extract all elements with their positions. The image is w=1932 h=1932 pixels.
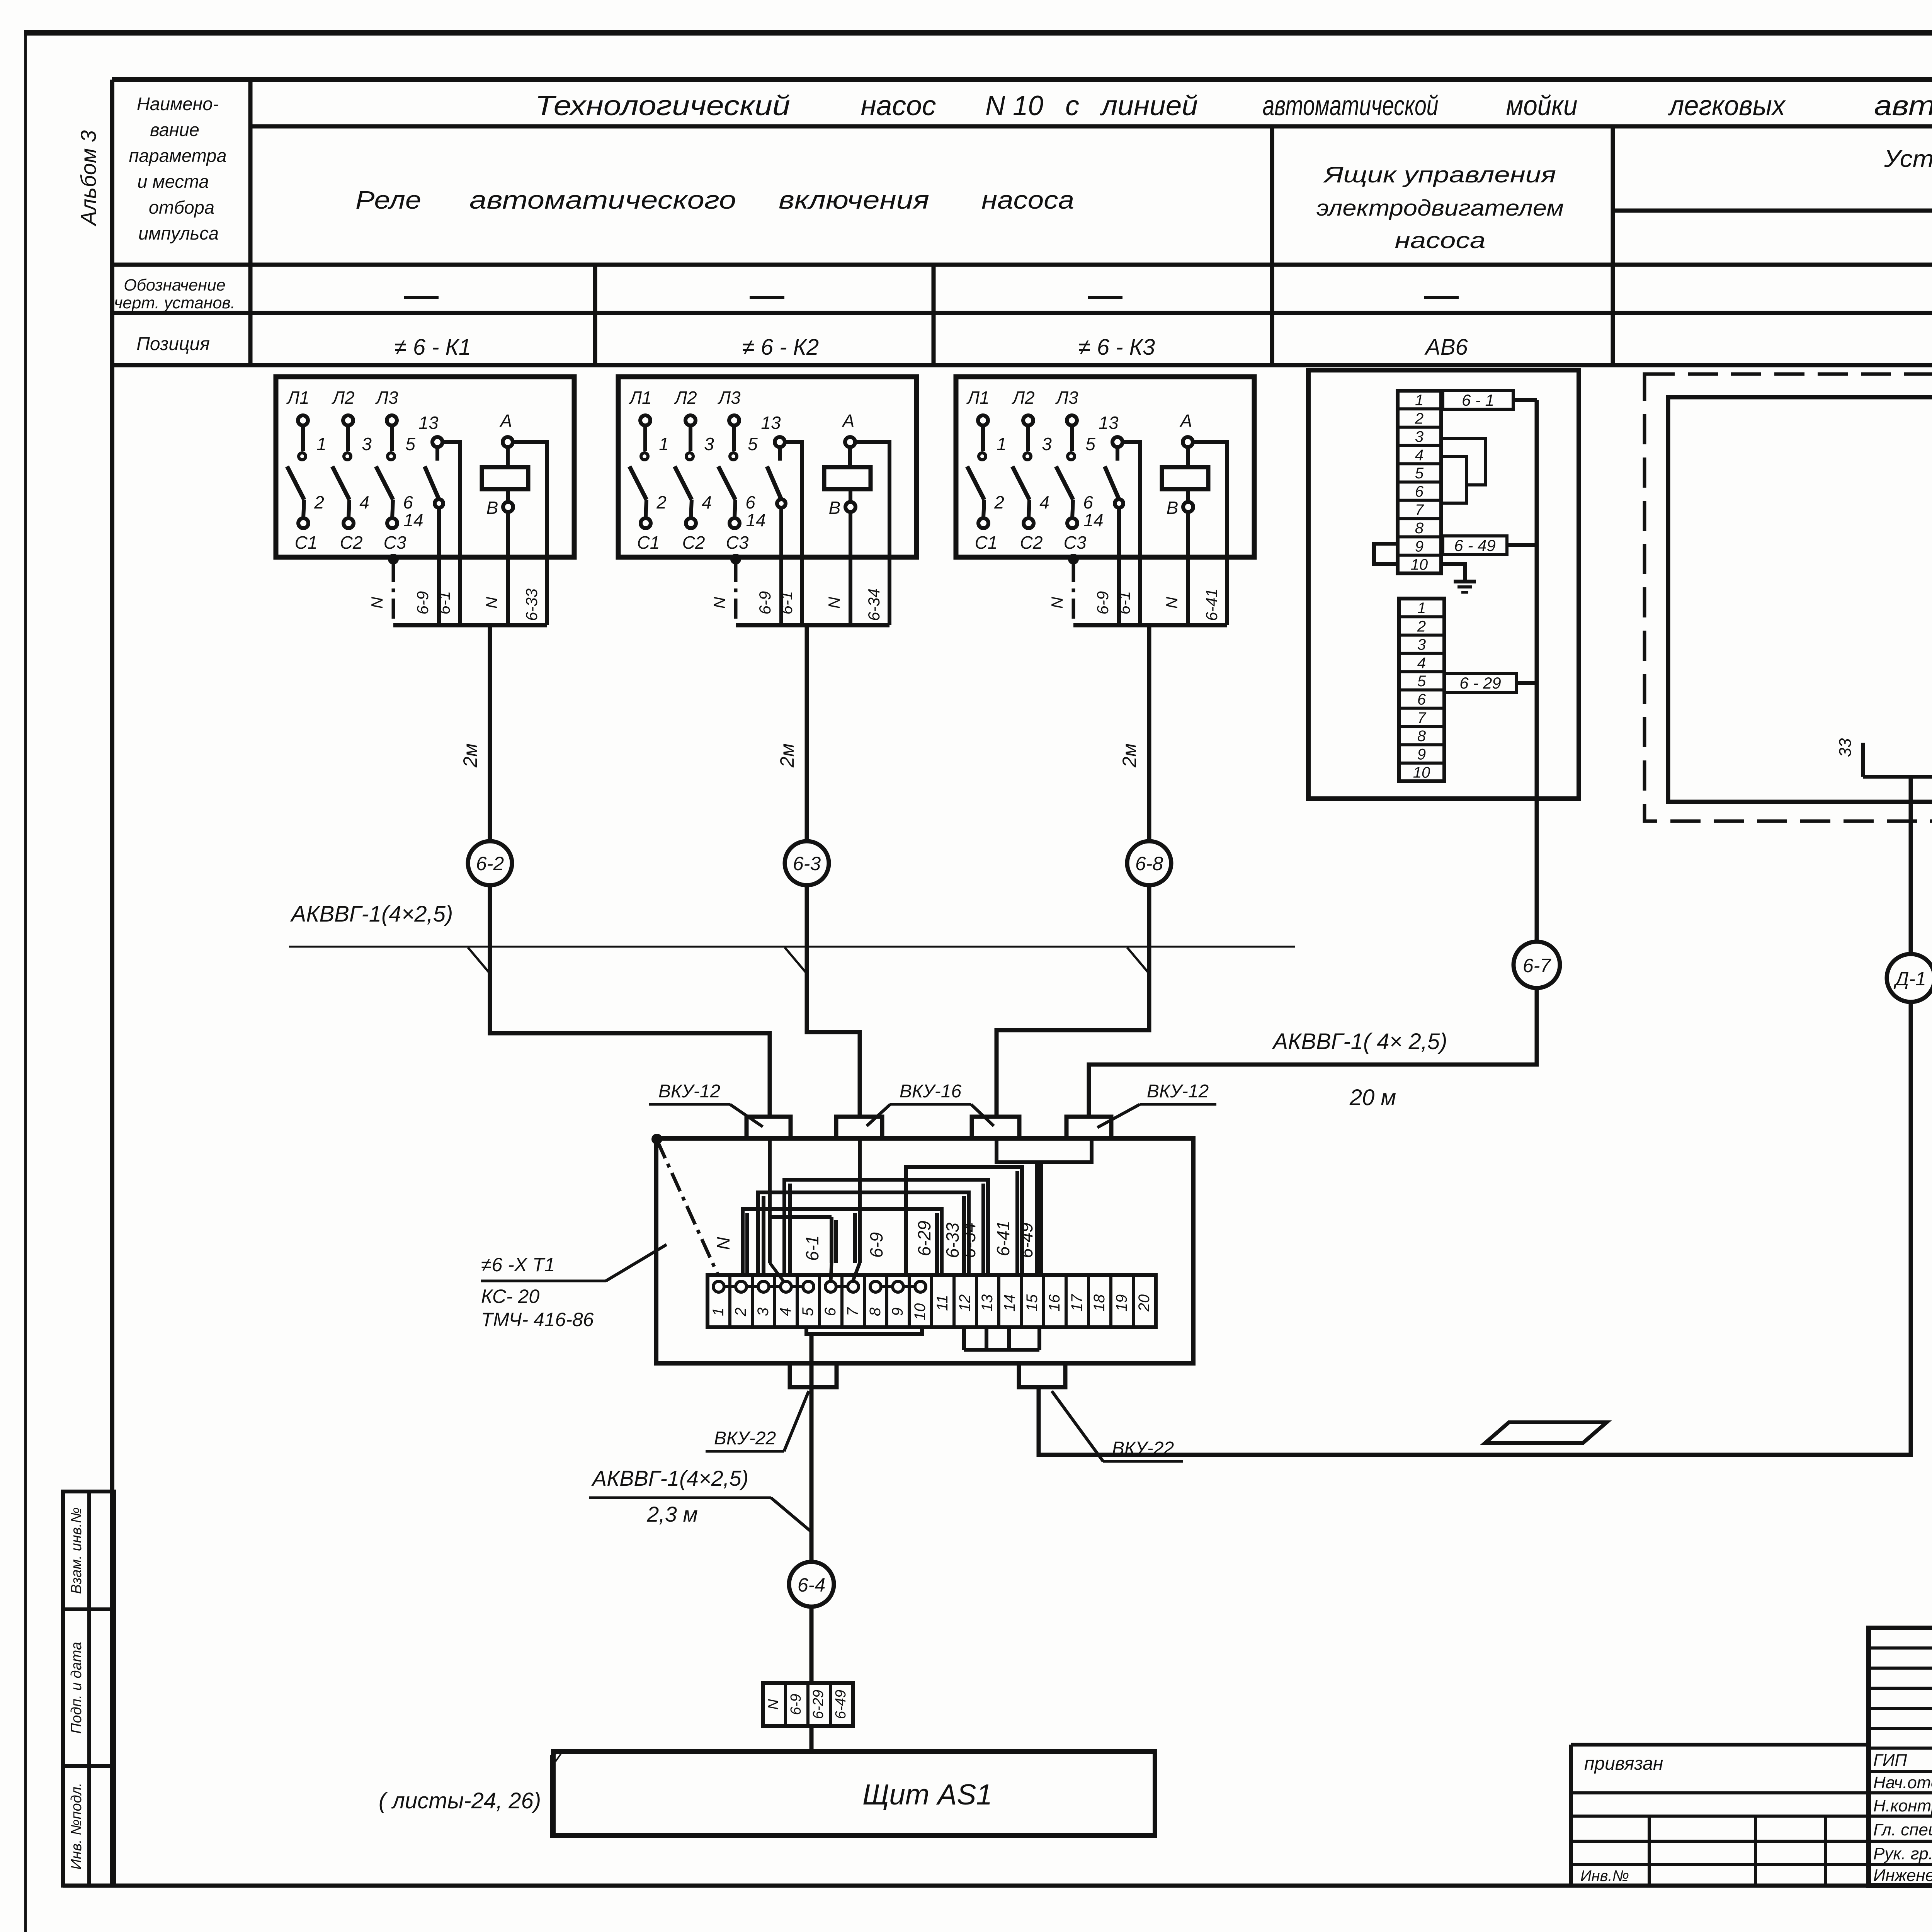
svg-text:2: 2 xyxy=(732,1308,749,1316)
wire core N2 of K2 xyxy=(849,557,852,625)
leader tick at wire 6-8 xyxy=(1127,947,1150,975)
svg-text:импульса: импульса xyxy=(138,223,219,243)
svg-text:6-2: 6-2 xyxy=(476,853,504,874)
sheet left border xyxy=(24,33,27,1932)
title rows xyxy=(1869,1771,1932,1864)
svg-text:С2: С2 xyxy=(1020,532,1043,553)
svg-text:Инв.№: Инв.№ xyxy=(1580,1867,1629,1884)
svg-text:2м: 2м xyxy=(1119,743,1140,768)
cable id circle 6-8 xyxy=(1127,841,1171,885)
switch K3.Л2 contact 3/4 xyxy=(1011,388,1052,553)
cable bus under K1 xyxy=(393,623,547,628)
svg-text:4: 4 xyxy=(702,492,712,512)
switch K2.Л2 contact 3/4 xyxy=(673,388,714,553)
svg-text:9: 9 xyxy=(1417,746,1426,763)
cable label AKVVG 2.3m xyxy=(589,1466,810,1531)
wire from VKU-12 left to terminal 4 xyxy=(770,1138,784,1281)
switch K3.Л3 contact 5/6 xyxy=(1055,388,1095,553)
jumper bracket to terminal 11 xyxy=(743,1209,942,1274)
switch K2.13-14 xyxy=(746,413,786,530)
svg-text:9: 9 xyxy=(889,1308,906,1316)
bushing VKU-16 b xyxy=(972,1117,1019,1138)
svg-text:15: 15 xyxy=(1024,1294,1041,1311)
svg-text:6-41: 6-41 xyxy=(1202,588,1221,621)
svg-text:3: 3 xyxy=(1415,429,1423,446)
svg-text:N: N xyxy=(765,1699,782,1710)
svg-text:АКВВГ-1(4×2,5): АКВВГ-1(4×2,5) xyxy=(591,1466,748,1490)
svg-text:1: 1 xyxy=(316,434,327,454)
svg-text:5: 5 xyxy=(405,434,415,454)
parameter cell: ustanovka text xyxy=(1884,146,1932,172)
AV6 side lug xyxy=(1374,544,1398,564)
wire 6-4 to strip xyxy=(810,1607,814,1683)
relay K2 enclosure xyxy=(618,377,917,557)
svg-text:В: В xyxy=(829,498,841,518)
leader tick at wire 6-3 xyxy=(785,947,808,975)
svg-text:6 - 1: 6 - 1 xyxy=(1462,391,1494,409)
svg-text:≠ 6 - К1: ≠ 6 - К1 xyxy=(395,335,471,360)
switch K1.Л2 contact 3/4 xyxy=(331,388,372,553)
relay K1 enclosure xyxy=(276,377,574,557)
svg-text:5: 5 xyxy=(1417,673,1426,690)
svg-text:2: 2 xyxy=(656,492,667,512)
wire from 14 contact of K3 xyxy=(1117,508,1121,557)
svg-text:20: 20 xyxy=(1136,1294,1153,1312)
svg-text:4: 4 xyxy=(1039,492,1049,512)
wire core N2 of K3 xyxy=(1186,557,1190,625)
svg-text:В: В xyxy=(1167,498,1179,518)
svg-text:2,3 м: 2,3 м xyxy=(646,1502,698,1526)
relay coil K2 xyxy=(824,411,871,518)
svg-text:Л2: Л2 xyxy=(1011,388,1034,408)
svg-text:ВКУ-22: ВКУ-22 xyxy=(714,1428,776,1449)
wire coil B of K3 xyxy=(1186,512,1190,557)
svg-text:1: 1 xyxy=(1417,600,1426,617)
terminal box 6-XT1 enclosure xyxy=(656,1138,1193,1363)
svg-text:2: 2 xyxy=(1417,618,1426,635)
svg-text:и места: и места xyxy=(137,171,209,192)
cable route 6-7 to VKU-12 right xyxy=(1089,988,1537,1117)
svg-text:ВКУ-22: ВКУ-22 xyxy=(1112,1438,1174,1459)
terminal strip XT1 cells 1-20 xyxy=(707,1275,1156,1327)
svg-text:6-9: 6-9 xyxy=(756,591,774,615)
cable bus under K3 xyxy=(1073,623,1227,628)
svg-text:С3: С3 xyxy=(726,532,749,553)
svg-text:6-29: 6-29 xyxy=(810,1690,827,1719)
junction node N of K1 xyxy=(389,555,397,563)
svg-text:1: 1 xyxy=(710,1308,727,1316)
wire VKU-22 right drop xyxy=(1037,1327,1041,1350)
svg-text:Гл. спец.: Гл. спец. xyxy=(1873,1820,1932,1839)
cable id circle D-1 xyxy=(1887,954,1932,1002)
svg-text:АКВВГ-1(4×2,5): АКВВГ-1(4×2,5) xyxy=(290,901,453,927)
wire coil B of K2 xyxy=(849,512,852,557)
installation inner box xyxy=(1668,397,1932,802)
svg-text:N: N xyxy=(713,1237,733,1250)
svg-text:С2: С2 xyxy=(682,532,705,553)
svg-text:N: N xyxy=(1048,597,1066,609)
wire core 6-41 of K3 xyxy=(1225,557,1229,625)
svg-text:6-41: 6-41 xyxy=(993,1221,1013,1256)
svg-text:N: N xyxy=(483,597,501,609)
wire core 6-9 of K2 xyxy=(779,557,783,625)
bushing VKU-16 a xyxy=(836,1117,882,1138)
svg-text:6-1: 6-1 xyxy=(1115,591,1133,615)
svg-text:6-4: 6-4 xyxy=(798,1574,825,1596)
cable drop wire from K1 xyxy=(488,625,492,841)
svg-text:6-1: 6-1 xyxy=(777,591,796,615)
svg-text:6-1: 6-1 xyxy=(802,1235,822,1261)
svg-text:С2: С2 xyxy=(340,532,363,553)
wire installation down to D-1 xyxy=(1909,777,1913,954)
parameter cell: rele text xyxy=(355,185,1074,214)
frame left edge xyxy=(110,80,114,1886)
AV6 terminal strip 1 (1-10) xyxy=(1398,391,1441,573)
wire from 13 contact of K3 xyxy=(1122,442,1140,557)
wire core 6-9 of K3 xyxy=(1117,557,1121,625)
switch K2.Л3 contact 5/6 xyxy=(717,388,758,553)
svg-text:5: 5 xyxy=(748,434,758,454)
AV6 enclosure xyxy=(1308,370,1579,799)
wire from 13 contact of K1 xyxy=(442,442,460,557)
svg-text:привязан: привязан xyxy=(1584,1753,1663,1774)
svg-text:6-9: 6-9 xyxy=(788,1694,804,1715)
svg-text:5: 5 xyxy=(799,1307,816,1316)
wire coil A loop of K1 xyxy=(513,442,547,557)
bushing VKU-12 right xyxy=(1066,1117,1111,1138)
label VKU-22 right xyxy=(1052,1391,1183,1461)
junction node N of K2 xyxy=(732,555,740,563)
svg-text:ВКУ-16: ВКУ-16 xyxy=(900,1081,962,1102)
jumper bracket to terminal 13 xyxy=(784,1180,988,1274)
sidebar stamp cells xyxy=(63,1492,114,1886)
svg-text:6-3: 6-3 xyxy=(793,853,821,874)
svg-text:6-9: 6-9 xyxy=(1094,591,1112,615)
svg-text:16: 16 xyxy=(1046,1294,1063,1311)
svg-text:А: А xyxy=(842,411,855,431)
svg-text:10: 10 xyxy=(1413,764,1430,781)
svg-text:14: 14 xyxy=(403,510,423,530)
svg-text:Инженер: Инженер xyxy=(1873,1866,1932,1885)
wire core 6-1 of K2 xyxy=(800,557,804,625)
cable id circle 6-4 xyxy=(789,1562,834,1607)
schedule table grid xyxy=(112,80,1932,365)
terminal bus in installation xyxy=(1863,775,1932,779)
svg-text:2: 2 xyxy=(314,492,324,512)
jumper bracket to terminal 12 xyxy=(758,1192,969,1274)
svg-text:электродвигателем: электродвигателем xyxy=(1316,196,1564,221)
svg-text:Л2: Л2 xyxy=(331,388,354,408)
frame bottom line (title block base) xyxy=(63,1884,1932,1888)
privyazan box xyxy=(1571,1745,1869,1886)
svg-text:≠ 6 - К3: ≠ 6 - К3 xyxy=(1078,335,1155,360)
label VKU-22 left xyxy=(706,1391,809,1451)
svg-text:10: 10 xyxy=(912,1303,929,1321)
svg-text:Рук. гр.: Рук. гр. xyxy=(1873,1844,1932,1863)
svg-text:Технологический: Технологический xyxy=(535,90,790,121)
XT1 terminal numbers (rotated) xyxy=(710,1294,1153,1320)
wire core 6-33 of K1 xyxy=(545,557,549,625)
svg-text:Альбом 3: Альбом 3 xyxy=(76,130,100,226)
svg-text:3: 3 xyxy=(755,1308,772,1316)
cable id circle 6-3 xyxy=(785,841,829,885)
svg-text:N: N xyxy=(710,597,728,609)
svg-text:Реле: Реле xyxy=(355,185,421,214)
parameter cell: yaschik text xyxy=(1316,162,1564,253)
svg-text:4: 4 xyxy=(359,492,369,512)
wire core 6-34 of K2 xyxy=(888,557,891,625)
svg-text:14: 14 xyxy=(1083,510,1103,530)
svg-text:насос: насос xyxy=(861,90,936,121)
bushing VKU-12 left xyxy=(747,1117,791,1138)
svg-text:11: 11 xyxy=(934,1295,951,1311)
svg-text:5: 5 xyxy=(1085,434,1095,454)
svg-text:КС- 20: КС- 20 xyxy=(481,1286,539,1307)
title block outline xyxy=(1869,1628,1932,1886)
svg-text:Л3: Л3 xyxy=(1055,388,1078,408)
svg-text:8: 8 xyxy=(867,1307,884,1316)
svg-text:≠6 -Х Т1: ≠6 -Х Т1 xyxy=(481,1254,555,1276)
bushing VKU-22 right xyxy=(1019,1363,1065,1387)
svg-text:А: А xyxy=(1179,411,1192,431)
svg-text:12: 12 xyxy=(956,1294,973,1312)
label VKU-12 left xyxy=(649,1081,763,1127)
switch K1.13-14 xyxy=(403,413,443,530)
oboznachenie dashes xyxy=(404,296,1932,299)
svg-text:9: 9 xyxy=(1415,538,1423,555)
svg-text:С1: С1 xyxy=(637,532,660,553)
svg-text:3: 3 xyxy=(362,434,372,454)
svg-text:Н.контр.: Н.контр. xyxy=(1873,1796,1932,1815)
svg-text:6-9: 6-9 xyxy=(413,591,432,615)
svg-text:5: 5 xyxy=(1415,465,1424,482)
svg-text:Взам. инв.№: Взам. инв.№ xyxy=(68,1507,85,1594)
svg-text:3: 3 xyxy=(1042,434,1052,454)
svg-text:1: 1 xyxy=(659,434,669,454)
svg-text:6-33: 6-33 xyxy=(522,588,541,621)
svg-text:АКВВГ-1( 4× 2,5): АКВВГ-1( 4× 2,5) xyxy=(1272,1029,1447,1054)
jumper bracket to terminal 14 xyxy=(906,1167,1022,1274)
cable drop wire from K3 xyxy=(1147,625,1151,841)
cable label AKVVG 20m xyxy=(1272,1029,1447,1110)
svg-text:4: 4 xyxy=(777,1308,794,1316)
title block mini revision table xyxy=(1869,1628,1932,1886)
big title row text xyxy=(535,90,1932,121)
privyazan subtable xyxy=(1571,1793,1869,1886)
label 6-XT1 xyxy=(481,1245,667,1330)
svg-text:13: 13 xyxy=(979,1294,996,1312)
svg-text:7: 7 xyxy=(1417,709,1427,726)
svg-text:7: 7 xyxy=(844,1307,861,1316)
svg-text:6 - 29: 6 - 29 xyxy=(1459,674,1501,692)
svg-text:3: 3 xyxy=(1417,636,1426,653)
svg-text:Наимено-: Наимено- xyxy=(137,94,219,114)
svg-text:насоса: насоса xyxy=(981,185,1074,214)
svg-text:6: 6 xyxy=(745,492,755,512)
relay coil K1 xyxy=(482,411,528,518)
svg-text:2: 2 xyxy=(994,492,1004,512)
svg-text:6-8: 6-8 xyxy=(1135,853,1163,874)
svg-text:2м: 2м xyxy=(776,743,798,768)
svg-text:2м: 2м xyxy=(459,743,481,768)
svg-text:Л1: Л1 xyxy=(286,388,309,408)
cable wire AV6 down to 6-7 xyxy=(1535,799,1539,942)
junction node N of K3 xyxy=(1070,555,1077,563)
svg-text:легковых: легковых xyxy=(1668,90,1786,121)
svg-text:АВ6: АВ6 xyxy=(1424,335,1468,360)
svg-text:С1: С1 xyxy=(975,532,998,553)
AV6 strip1 jumper 3-5 xyxy=(1441,439,1486,485)
sheet top border xyxy=(24,30,1932,36)
svg-text:13: 13 xyxy=(761,413,781,433)
relay coil K3 xyxy=(1162,411,1208,518)
cable route D-1 to VKU-22 right xyxy=(1039,1002,1911,1455)
sheets ref note xyxy=(379,1751,563,1838)
svg-text:14: 14 xyxy=(746,510,765,530)
svg-text:линией: линией xyxy=(1100,90,1198,121)
svg-text:мойки: мойки xyxy=(1506,90,1578,121)
svg-text:черт. установ.: черт. установ. xyxy=(114,294,235,312)
cable bus under K2 xyxy=(736,623,889,628)
svg-text:С3: С3 xyxy=(1064,532,1087,553)
svg-text:Щит АS1: Щит АS1 xyxy=(862,1778,992,1811)
wire core N2 of K1 xyxy=(506,557,510,625)
svg-text:6: 6 xyxy=(1417,691,1426,708)
label VKU-16 xyxy=(867,1081,994,1126)
svg-text:С1: С1 xyxy=(295,532,318,553)
wire coil A loop of K2 xyxy=(855,442,889,557)
svg-text:Подп. и дата: Подп. и дата xyxy=(68,1642,85,1734)
svg-text:3: 3 xyxy=(704,434,714,454)
svg-text:автомобилей: автомобилей xyxy=(1874,90,1932,121)
svg-text:1: 1 xyxy=(1415,392,1423,409)
wire route 6-2 to VKU-12 left xyxy=(490,885,770,1117)
header label column text xyxy=(129,94,226,243)
svg-text:автоматической: автоматической xyxy=(1263,90,1439,121)
dashed boundary of installation xyxy=(1645,374,1932,821)
role labels xyxy=(1873,1751,1932,1885)
label VKU-12 right xyxy=(1097,1081,1216,1128)
svg-text:7: 7 xyxy=(1415,502,1424,519)
svg-text:13: 13 xyxy=(418,413,439,433)
switch K1.Л1 contact 1/2 xyxy=(286,388,326,553)
panel Schit AS1 xyxy=(553,1752,1155,1835)
wire N dash-dot of K3 xyxy=(1072,562,1075,625)
jumper to terminal 6 from bushing wire xyxy=(770,1217,836,1281)
svg-text:6: 6 xyxy=(1083,492,1093,512)
svg-text:6: 6 xyxy=(822,1307,839,1316)
AV6 ground symbol xyxy=(1441,564,1476,592)
wire from 13 contact of K2 xyxy=(785,442,802,557)
svg-text:ТМЧ- 416-86: ТМЧ- 416-86 xyxy=(481,1309,594,1330)
svg-text:N: N xyxy=(825,597,843,609)
wire core 6-1 of K1 xyxy=(458,557,462,625)
wire strip to AS1 xyxy=(810,1726,814,1752)
svg-text:Л3: Л3 xyxy=(717,388,741,408)
svg-text:33: 33 xyxy=(1836,738,1855,757)
svg-text:отбора: отбора xyxy=(149,197,214,218)
svg-text:А: А xyxy=(499,411,512,431)
svg-text:4: 4 xyxy=(1415,447,1423,464)
svg-text:Л3: Л3 xyxy=(375,388,398,408)
AV6 internal riser wire xyxy=(1535,400,1539,799)
svg-text:ВКУ-12: ВКУ-12 xyxy=(658,1081,720,1102)
svg-text:6-34: 6-34 xyxy=(959,1223,979,1258)
svg-text:6-1: 6-1 xyxy=(435,591,453,615)
wire from 14 contact of K1 xyxy=(437,508,441,557)
switch K2.Л1 contact 1/2 xyxy=(628,388,668,553)
leader tick at wire 6-2 xyxy=(468,947,491,975)
XT1 terminal circles and links xyxy=(713,1281,926,1292)
AV6 terminal strip 2 (1-10) xyxy=(1399,599,1444,781)
wire N dash-dot of K1 xyxy=(392,562,395,625)
svg-text:С3: С3 xyxy=(384,532,406,553)
terminal 33 tick xyxy=(1836,738,1863,777)
switch K3.13-14 xyxy=(1083,413,1123,530)
wire core 6-9 of K1 xyxy=(437,557,441,625)
wire route 6-8 to VKU-16 xyxy=(997,885,1149,1115)
svg-text:Обозначение: Обозначение xyxy=(124,276,225,294)
cable id circle 6-7 xyxy=(1514,942,1560,988)
svg-text:В: В xyxy=(486,498,498,518)
svg-text:Позиция: Позиция xyxy=(136,334,210,354)
wire coil B of K1 xyxy=(506,512,510,557)
svg-text:≠ 6 - К2: ≠ 6 - К2 xyxy=(742,335,819,360)
wire route 6-3 to VKU-16 xyxy=(807,885,860,1117)
svg-text:8: 8 xyxy=(1415,520,1424,537)
svg-text:19: 19 xyxy=(1113,1294,1130,1312)
svg-text:насоса: насоса xyxy=(1395,228,1486,253)
svg-text:6 - 49: 6 - 49 xyxy=(1454,536,1495,554)
AV6 wire tag 6-29 xyxy=(1444,673,1537,692)
svg-text:включения: включения xyxy=(779,185,929,214)
svg-text:параметра: параметра xyxy=(129,145,226,166)
svg-text:N 10: N 10 xyxy=(985,90,1043,121)
bushing VKU-22 left xyxy=(790,1363,837,1387)
svg-text:6-7: 6-7 xyxy=(1523,955,1551,976)
AV6 wire tag 6-49 xyxy=(1443,536,1537,554)
junction dot box corner xyxy=(653,1135,661,1143)
svg-text:6-34: 6-34 xyxy=(865,588,883,621)
svg-text:Инв. №подл.: Инв. №подл. xyxy=(68,1782,85,1869)
wire N dash-dot to terminal 1 xyxy=(657,1140,718,1274)
svg-text:6: 6 xyxy=(1415,483,1424,500)
switch K3.Л1 contact 1/2 xyxy=(966,388,1006,553)
svg-text:Л1: Л1 xyxy=(628,388,651,408)
wire core 6-1 of K3 xyxy=(1138,557,1142,625)
svg-text:Установка: Установка xyxy=(1884,146,1932,172)
collector to VKU-22 right xyxy=(964,1327,1009,1350)
svg-text:14: 14 xyxy=(1001,1294,1018,1312)
svg-text:Л2: Л2 xyxy=(673,388,697,408)
collector to VKU-22 left xyxy=(806,1327,922,1334)
svg-text:с: с xyxy=(1065,90,1079,121)
svg-text:6-29: 6-29 xyxy=(914,1221,934,1256)
wire N dash-dot of K2 xyxy=(734,562,738,625)
svg-text:17: 17 xyxy=(1068,1294,1085,1311)
row label oboznachenie xyxy=(114,276,235,312)
svg-text:13: 13 xyxy=(1099,413,1119,433)
svg-text:8: 8 xyxy=(1417,728,1426,745)
svg-text:18: 18 xyxy=(1091,1294,1108,1311)
AV6 strip1 jumper 4-6 xyxy=(1441,457,1466,503)
mini terminal strip at AS1 xyxy=(763,1683,853,1726)
svg-text:ГИП: ГИП xyxy=(1873,1751,1907,1770)
parallelogram marker on D-1 run xyxy=(1485,1422,1607,1443)
svg-text:N: N xyxy=(368,597,386,609)
svg-text:2: 2 xyxy=(1415,410,1423,427)
wire coil A loop of K3 xyxy=(1193,442,1227,557)
